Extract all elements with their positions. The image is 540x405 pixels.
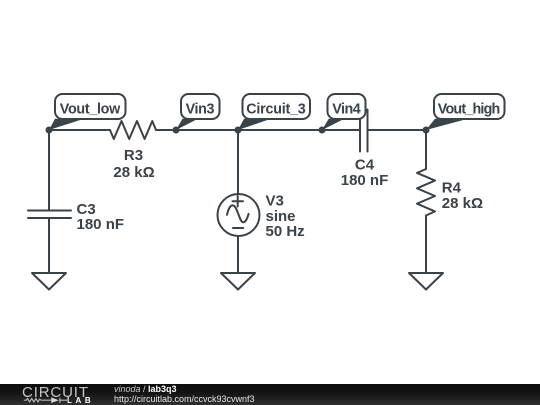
CircuitLab logo <box>0 384 110 405</box>
svg-text:Vout_high: Vout_high <box>438 101 501 117</box>
svg-text:180 nF: 180 nF <box>341 172 389 189</box>
wire Vout_low node down to C3 <box>48 130 50 211</box>
node Vout_low flag <box>49 94 126 130</box>
capacitor C3 <box>28 211 71 219</box>
wire Vin3 to Circuit_3 <box>176 129 238 131</box>
wire between R3 and Vin3 <box>156 129 176 131</box>
node Vin4 flag <box>322 94 366 130</box>
node Vin3 flag <box>176 94 220 130</box>
wire C4 right plate to Vout_high <box>368 129 427 131</box>
junction dot Vin4 <box>319 127 326 134</box>
junction dot Circuit_3 <box>235 127 242 134</box>
junction dot Vin3 <box>173 127 180 134</box>
svg-text:Vin3: Vin3 <box>186 101 215 117</box>
ground (right) <box>409 273 443 290</box>
junction dot Vout_low <box>46 127 53 134</box>
resistor R4 <box>417 169 435 216</box>
svg-text:28 kΩ: 28 kΩ <box>113 164 154 181</box>
svg-text:C4: C4 <box>355 157 375 174</box>
wire Circuit_3 node down to V3 <box>237 130 239 194</box>
svg-text:Vout_low: Vout_low <box>60 101 121 117</box>
wire Vin4 to C4 left plate <box>322 129 360 131</box>
wire R4 to ground <box>425 216 427 274</box>
node Vout_high flag <box>426 94 505 130</box>
svg-text:180 nF: 180 nF <box>77 216 125 233</box>
wire main horizontal left segment <box>49 129 110 131</box>
wire Circuit_3 to Vin4 <box>238 129 322 131</box>
svg-text:Vin4: Vin4 <box>332 101 361 117</box>
footer bar <box>0 384 540 405</box>
svg-text:Circuit_3: Circuit_3 <box>246 101 306 117</box>
resistor R3 <box>110 121 156 139</box>
svg-text:R4: R4 <box>442 180 462 197</box>
svg-text:LAB: LAB <box>67 396 93 405</box>
node Circuit_3 flag <box>238 94 310 130</box>
junction dot Vout_high <box>423 127 430 134</box>
wire V3 to ground <box>237 236 239 273</box>
label C3 value <box>77 201 125 233</box>
wire C3 to ground <box>48 218 50 273</box>
footer text <box>114 385 255 404</box>
svg-text:50 Hz: 50 Hz <box>266 223 305 240</box>
label C4 value <box>341 157 389 190</box>
wire Vout_high node down to R4 <box>425 130 427 169</box>
svg-text:28 kΩ: 28 kΩ <box>442 195 483 212</box>
ground (left) <box>32 273 66 290</box>
capacitor C4 <box>360 110 368 152</box>
label R3 value <box>113 147 154 181</box>
svg-text:V3: V3 <box>266 193 284 210</box>
svg-text:R3: R3 <box>124 147 143 164</box>
label V3 value <box>266 193 305 241</box>
ground (middle) <box>221 273 255 290</box>
label R4 value <box>442 180 483 213</box>
voltage source V3 <box>218 194 260 236</box>
